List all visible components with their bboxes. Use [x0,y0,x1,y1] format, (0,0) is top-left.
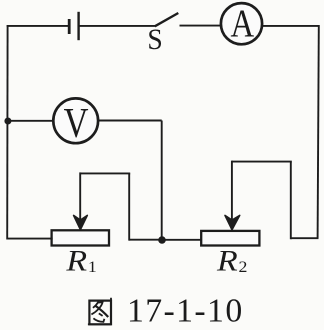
R1 wiper top run [80,172,130,174]
svg-text:R2: R2 [216,244,247,276]
wire junction to R1 wiper corner [129,239,163,241]
junction dot (left rail, voltmeter tap) [4,118,11,125]
wire battery to switch pivot [79,25,156,27]
wire voltmeter to drop corner [98,120,162,122]
wire voltmeter drop to junction [161,121,163,241]
wire top-left (left rail to battery) [7,25,69,27]
R2 wiper riser [290,162,292,240]
wire right vertical rail [318,25,319,238]
wire R1 to left rail [7,238,52,240]
wire bottom-right to R2 wiper riser [291,237,319,239]
R1 wiper arrowhead [74,215,88,229]
voltmeter V circle [53,98,98,143]
wire left vertical rail [6,25,8,240]
rheostat R2 box [201,231,259,246]
battery long plate (positive) [77,12,79,40]
wire ammeter to top-right corner [262,25,319,27]
wire switch contact to ammeter [180,25,222,27]
R2 wiper top run [232,161,292,163]
wire left rail to voltmeter [8,120,53,122]
wire R2 to junction [162,239,201,241]
ammeter A circle [221,3,262,44]
R1 wiper riser [128,173,130,240]
R2 wiper drop [231,161,233,228]
R2 wiper arrowhead [225,215,240,229]
caption glyph 图 (drawn) [88,298,111,325]
svg-text:R1: R1 [65,244,96,276]
R1 wiper drop [79,172,81,227]
battery short plate (negative) [68,19,71,34]
rheostat R1 box [52,230,109,245]
svg-text:A: A [230,1,254,44]
svg-text:S: S [147,23,162,56]
svg-text:V: V [64,101,89,147]
junction dot (bottom, voltmeter tap) [158,236,166,244]
svg-text:17-1-10: 17-1-10 [127,293,244,330]
switch S lever [155,13,179,26]
